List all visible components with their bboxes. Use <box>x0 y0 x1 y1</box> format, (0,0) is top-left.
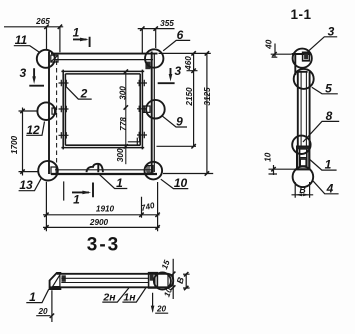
svg-text:5: 5 <box>325 81 332 95</box>
label 3 <box>308 37 338 52</box>
bolt right 1 <box>137 80 147 86</box>
bolt left 3 <box>59 132 69 138</box>
circle detail 5 <box>294 69 314 89</box>
label 4 <box>313 181 339 194</box>
label 6 <box>163 40 190 50</box>
circle node mid-left <box>37 102 55 120</box>
inner opening bottom wall <box>61 145 144 147</box>
frame right edge inner line <box>153 54 155 173</box>
label 5 <box>312 87 338 94</box>
circle node bottom-left <box>38 161 58 181</box>
svg-text:В: В <box>299 185 306 195</box>
svg-text:40: 40 <box>265 39 274 50</box>
label 2 leader <box>66 86 92 99</box>
svg-text:355: 355 <box>160 19 174 28</box>
gusset mid-right <box>143 106 150 112</box>
circle detail 8 <box>292 136 310 154</box>
inner opening right wall <box>140 70 142 150</box>
post top cap <box>295 71 307 73</box>
frame top edge inner line <box>55 59 153 61</box>
svg-text:4: 4 <box>326 181 334 195</box>
tie bar bottom line <box>50 286 169 288</box>
frame right edge outer line <box>151 52 153 175</box>
svg-text:265: 265 <box>35 17 50 26</box>
hinge bump bottom center <box>87 164 103 172</box>
right dim line A 460/2150 <box>187 53 198 146</box>
svg-text:1910: 1910 <box>96 204 115 213</box>
mini dim 40 top-left <box>271 44 292 58</box>
circle node mid-right <box>146 100 165 119</box>
label 12 <box>26 122 44 136</box>
corner gusset bottom-right <box>147 166 153 173</box>
dim B bottom <box>292 182 314 198</box>
svg-text:1н: 1н <box>123 291 136 303</box>
inner opening top wall <box>61 71 144 74</box>
label 1 <box>310 160 337 171</box>
top corner bracket <box>292 53 310 75</box>
svg-text:3: 3 <box>328 24 335 38</box>
mini dim 10 bottom-left <box>269 165 297 175</box>
bolt left 1 <box>59 80 69 86</box>
label 8 <box>303 121 339 142</box>
label 11 <box>14 46 39 52</box>
svg-text:1: 1 <box>73 193 80 207</box>
frame top edge outer line <box>51 53 158 55</box>
svg-text:13: 13 <box>19 178 33 192</box>
svg-text:3-3: 3-3 <box>87 235 120 256</box>
bottom dim line 1910/740 <box>43 214 160 216</box>
post vertical lines <box>298 72 310 147</box>
tie bar inner line 2 <box>61 282 148 284</box>
svg-text:10: 10 <box>174 176 188 190</box>
circle node top-left <box>37 50 55 68</box>
bolt right 2 <box>137 106 147 112</box>
label 9 <box>162 116 187 127</box>
right extension line bottom <box>163 173 213 175</box>
circle at joint <box>154 273 171 290</box>
dim 20 left <box>36 290 52 322</box>
dim 1700 <box>19 108 39 176</box>
svg-text:2150: 2150 <box>185 87 194 107</box>
svg-text:3: 3 <box>19 66 26 80</box>
svg-text:1: 1 <box>73 26 80 40</box>
SECTION 3-3 VIEW <box>26 259 189 322</box>
bolt right 3 <box>137 132 147 138</box>
bottom extension lines <box>46 182 157 232</box>
right extension line mid <box>157 145 197 147</box>
interior dim line 300/778/300 <box>125 71 127 164</box>
label 1 left <box>26 289 48 302</box>
svg-text:1700: 1700 <box>10 135 19 154</box>
svg-text:1: 1 <box>325 158 332 172</box>
label 1н <box>122 288 146 303</box>
circle detail 4 (bottom) <box>293 167 314 188</box>
svg-text:1: 1 <box>29 290 36 304</box>
label 13 <box>19 178 42 191</box>
shoe divider <box>300 157 307 159</box>
corner gusset bottom-left <box>51 167 56 174</box>
right extension line top <box>159 52 211 54</box>
circle detail 3 (top) <box>293 49 312 68</box>
svg-text:11: 11 <box>15 33 28 47</box>
dim B right <box>183 274 190 288</box>
right extension line with 15 and 10 <box>172 259 174 299</box>
angle mark inner bottom-right <box>128 138 140 145</box>
dim 265 line <box>4 27 63 53</box>
frame left edge line <box>48 52 50 175</box>
shoe inner box <box>300 149 307 167</box>
svg-text:9: 9 <box>176 115 183 129</box>
tie bar inner line 1 <box>61 277 148 279</box>
corner gusset top-right <box>145 62 150 70</box>
svg-text:20: 20 <box>37 307 48 316</box>
bolt left 2 <box>59 106 69 112</box>
svg-text:3125: 3125 <box>203 87 212 106</box>
label 1 plan <box>100 175 128 189</box>
gusset mid-left <box>52 108 56 114</box>
left end cap inner triangle <box>53 275 60 287</box>
svg-text:1: 1 <box>116 176 123 190</box>
svg-text:6: 6 <box>177 28 184 42</box>
svg-text:1-1: 1-1 <box>290 7 311 22</box>
label 10 <box>161 179 189 188</box>
dim 20 right with arrow <box>153 293 169 313</box>
bottom dim line 2900 <box>43 226 160 228</box>
svg-text:8: 8 <box>326 109 333 123</box>
corner gusset top-left <box>51 55 58 62</box>
frame bottom edge inner line <box>55 169 152 171</box>
label 2н <box>102 288 129 302</box>
rounded bar end <box>168 274 173 288</box>
circle node top-right <box>145 49 163 67</box>
svg-text:778: 778 <box>119 117 128 131</box>
svg-text:10: 10 <box>264 152 273 162</box>
section mark 1 bottom <box>63 181 65 200</box>
top bracket plate <box>303 52 310 61</box>
dim 355 line <box>138 29 175 54</box>
svg-text:300: 300 <box>116 148 125 162</box>
frame left hidden dashed line <box>56 61 58 171</box>
svg-text:2н: 2н <box>102 292 116 304</box>
svg-text:460: 460 <box>184 56 193 71</box>
left end cap outer <box>50 273 62 289</box>
shoe outer box <box>297 147 309 170</box>
PLAN VIEW <box>4 17 213 256</box>
frame bottom edge outer line <box>51 173 157 175</box>
svg-text:300: 300 <box>119 86 128 100</box>
tie bar top line <box>57 273 168 275</box>
svg-text:2: 2 <box>80 87 88 101</box>
svg-text:12: 12 <box>26 123 40 137</box>
joint plate <box>149 273 158 288</box>
SECTION 1-1 VIEW <box>264 7 340 198</box>
svg-text:3: 3 <box>174 64 181 78</box>
right dim line B 3125 <box>206 53 208 173</box>
circle node bottom-right <box>145 162 163 180</box>
weld block at cap <box>62 275 66 282</box>
svg-text:2900: 2900 <box>89 218 109 227</box>
svg-text:20: 20 <box>156 304 167 313</box>
inner opening left wall <box>63 70 65 150</box>
